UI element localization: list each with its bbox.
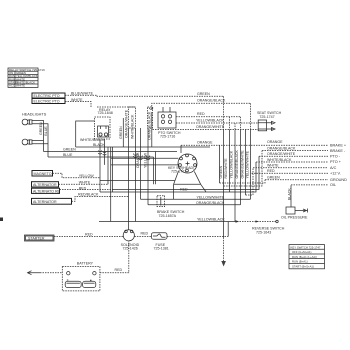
svg-text:RED/WHITE: RED/WHITE [224,158,228,179]
svg-text:KEY SWITCH 725-1747: KEY SWITCH 725-1747 [291,245,321,249]
svg-text:GREEN: GREEN [119,126,123,139]
svg-text:WHITE: WHITE [16,84,25,88]
svg-text:GROUND: GROUND [330,178,347,182]
svg-text:725-1426: 725-1426 [123,246,138,250]
svg-text:725-1657A: 725-1657A [159,214,177,218]
svg-text:ALTERNATO RE: ALTERNATO RE [33,189,61,193]
svg-text:ELECTRIC PTO: ELECTRIC PTO [34,94,60,98]
svg-text:ORANGE: ORANGE [197,140,213,144]
svg-text:YELLOW: YELLOW [144,152,148,168]
svg-text:RED/BLACK: RED/BLACK [78,192,99,196]
svg-text:ORANGE: ORANGE [267,140,283,144]
svg-text:OFF (G+M+A1): OFF (G+M+A1) [292,250,311,254]
svg-text:GREEN: GREEN [63,148,76,152]
svg-text:ORANGE/BLACK: ORANGE/BLACK [196,201,225,205]
svg-text:+12 V.: +12 V. [330,172,341,176]
svg-text:GREEN: GREEN [197,92,210,96]
svg-text:BRAKE +: BRAKE + [330,143,347,147]
svg-text:RED: RED [141,232,149,236]
svg-text:RED: RED [85,233,93,237]
svg-text:725-1648: 725-1648 [98,111,113,115]
svg-text:WHITE/BLACK: WHITE/BLACK [80,138,105,142]
svg-text:725-1643: 725-1643 [256,230,271,234]
svg-text:ALTERNATOR: ALTERNATOR [33,200,57,204]
svg-text:GREEN: GREEN [39,122,43,135]
svg-text:BLACK: BLACK [287,188,291,200]
svg-text:ELECTRIC PTO: ELECTRIC PTO [34,100,60,104]
svg-text:OIL PRESSURE: OIL PRESSURE [281,215,308,219]
svg-text:RED: RED [267,169,275,173]
svg-text:WHITE: WHITE [79,181,91,185]
svg-text:START (B+S+A1): START (B+S+A1) [292,265,314,269]
svg-text:STARTER: STARTER [28,237,45,241]
svg-text:GREEN: GREEN [219,165,223,178]
svg-text:RUN (B+A1 (L+A2)): RUN (B+A1 (L+A2)) [292,255,317,259]
svg-text:BLACK: BLACK [93,143,105,147]
svg-text:WHITE/BLACK: WHITE/BLACK [131,114,135,139]
svg-text:MAGNETO: MAGNETO [34,172,52,176]
svg-text:YELLOW/BLACK: YELLOW/BLACK [197,218,225,222]
svg-text:ORANGE/WHITE: ORANGE/WHITE [240,150,244,179]
svg-text:ORANGE/WHITE: ORANGE/WHITE [196,125,225,129]
svg-text:BATTERY: BATTERY [77,262,94,266]
svg-text:RUN (B+A1): RUN (B+A1) [292,260,308,264]
svg-text:725-1381: 725-1381 [154,246,169,250]
svg-text:A/C: A/C [330,166,337,170]
svg-text:RED: RED [180,187,188,191]
svg-text:RELAY SWITCH 725-1716: RELAY SWITCH 725-1716 [9,68,45,72]
svg-text:YELLOW: YELLOW [79,174,95,178]
svg-text:ORANGE/BLACK: ORANGE/BLACK [197,99,226,103]
svg-text:BRAKE -: BRAKE - [330,149,346,153]
svg-text:ACC: ACC [9,84,15,88]
svg-text:GREEN: GREEN [267,176,280,180]
svg-text:BLUE: BLUE [63,153,73,157]
svg-text:YELLOW/WHITE: YELLOW/WHITE [197,195,225,199]
svg-text:WHITE/BLACK: WHITE/BLACK [267,158,292,162]
svg-text:BLUE: BLUE [44,126,48,136]
svg-text:YELLOW/WHITE: YELLOW/WHITE [246,150,250,178]
svg-text:ORANGE: ORANGE [136,152,140,168]
svg-text:YELLOW/BLACK: YELLOW/BLACK [196,119,224,123]
svg-text:725-1747: 725-1747 [259,115,274,119]
svg-text:PTO +: PTO + [330,160,342,164]
svg-text:HEADLIGHTS: HEADLIGHTS [22,113,47,117]
svg-text:725-1716: 725-1716 [160,135,175,139]
svg-text:ORANGE/WHITE: ORANGE/WHITE [267,152,296,156]
svg-text:ORANGE/BLACK: ORANGE/BLACK [267,146,296,150]
svg-text:RED: RED [79,186,87,190]
svg-text:RED: RED [197,112,205,116]
svg-text:PTO -: PTO - [330,155,341,159]
svg-text:ORANGE/WHITE: ORANGE/WHITE [125,109,129,138]
svg-text:WHITE: WHITE [267,164,279,168]
svg-text:725-1717: 725-1717 [171,170,186,174]
svg-text:ALTERNATOR: ALTERNATOR [33,183,57,187]
svg-text:YELLOW/BLACK: YELLOW/BLACK [230,150,234,178]
svg-text:RED: RED [115,268,123,272]
svg-text:ORANGE/BLACK: ORANGE/BLACK [235,150,239,179]
svg-text:OIL: OIL [330,183,336,187]
